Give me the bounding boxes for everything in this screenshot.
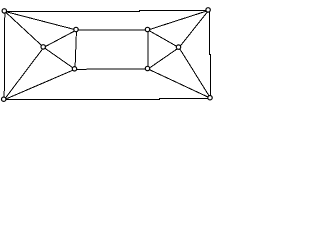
node H (inner top-right) (145, 27, 149, 31)
wire B-F (179, 10, 209, 47)
wire G-H (inner rect top) (77, 29, 149, 31)
node F (mid-right) (176, 45, 180, 49)
wire A-B (top edge, right span row 10) (139, 10, 209, 12)
node G (inner top-left) (74, 27, 78, 31)
wire C-I (4, 69, 75, 99)
node C (bottom-left) (2, 97, 6, 101)
wire E-I (44, 47, 75, 69)
wire E-G (44, 30, 77, 47)
wire C-D (bottom edge, left span row 99) (4, 99, 160, 101)
wire A-E (5, 11, 44, 47)
node D (bottom-right) (208, 96, 212, 100)
wire C-D (bottom edge, right span row 98) (159, 98, 211, 100)
wire C-E (4, 47, 44, 99)
wire B-D (right edge, lower span col 210) (210, 54, 212, 99)
wire I-J (inner rect bottom) (75, 68, 148, 70)
wire D-J (148, 69, 211, 98)
wire B-D (right edge, upper span col 209) (209, 10, 211, 55)
wire F-J (148, 48, 179, 69)
wire A-B (top edge, left span row 11) (5, 11, 140, 13)
node J (inner bottom-right) (145, 66, 149, 70)
node A (top-left) (2, 9, 6, 13)
wire F-H (148, 30, 179, 48)
node I (inner bottom-left) (72, 67, 76, 71)
wire D-F (179, 48, 211, 99)
wire A-C (left edge) (3, 11, 6, 99)
wire A-G (5, 11, 77, 30)
wire G-I (inner rect left) (75, 30, 77, 69)
node E (mid-left) (41, 45, 45, 49)
wire B-H (148, 10, 209, 30)
node B (top-right) (206, 8, 210, 12)
wire H-J (inner rect right) (147, 30, 149, 69)
